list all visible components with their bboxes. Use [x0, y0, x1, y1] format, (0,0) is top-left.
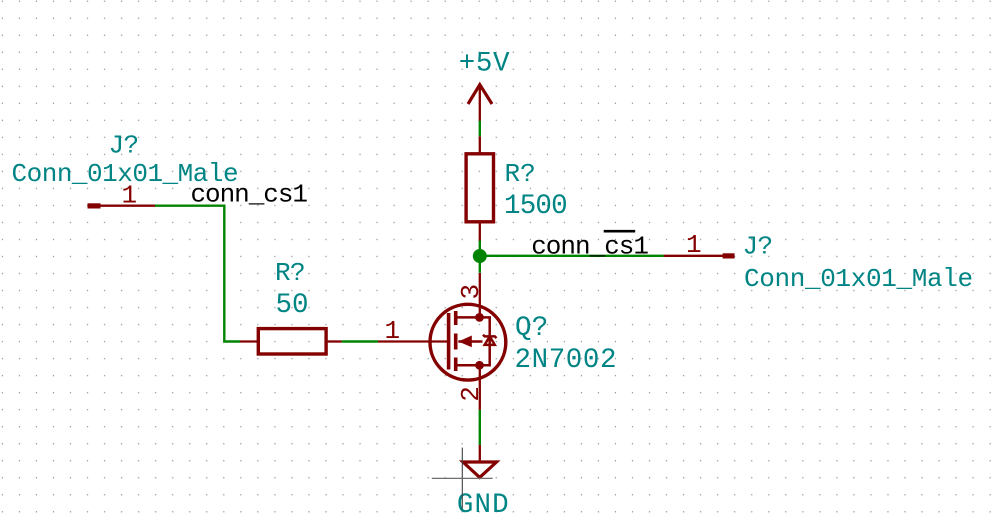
svg-text:3: 3 — [456, 284, 486, 299]
svg-text:J?: J? — [743, 232, 773, 262]
svg-text:conn_cs1: conn_cs1 — [531, 231, 648, 261]
svg-text:Conn_01x01_Male: Conn_01x01_Male — [744, 264, 973, 294]
svg-text:1500: 1500 — [504, 191, 567, 222]
svg-text:conn_cs1: conn_cs1 — [191, 180, 308, 210]
svg-text:1: 1 — [686, 230, 701, 260]
svg-text:Q?: Q? — [515, 313, 549, 344]
svg-text:+5V: +5V — [459, 48, 510, 79]
svg-text:2N7002: 2N7002 — [515, 345, 618, 376]
svg-text:2: 2 — [456, 387, 486, 402]
svg-text:GND: GND — [457, 490, 510, 521]
svg-text:1: 1 — [121, 180, 136, 210]
svg-text:R?: R? — [275, 258, 305, 288]
svg-text:J?: J? — [108, 130, 138, 160]
svg-text:1: 1 — [384, 316, 399, 346]
svg-text:50: 50 — [275, 290, 308, 321]
svg-text:R?: R? — [505, 159, 536, 189]
